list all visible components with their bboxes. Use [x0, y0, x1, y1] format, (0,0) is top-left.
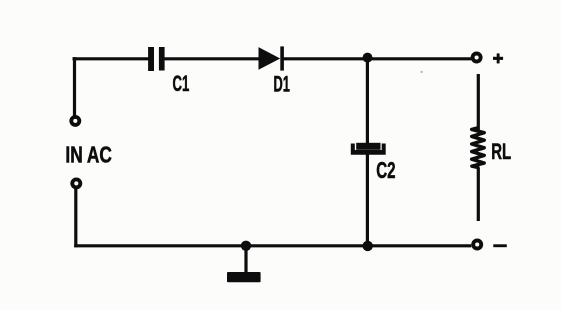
wire: C2 bottom to node B on bottom rail — [366, 154, 369, 246]
svg-text:C2: C2 — [376, 157, 395, 183]
wire: + terminal down to RL top — [477, 74, 480, 130]
terminal: lower IN AC — [72, 179, 80, 187]
node B junction dot (bottom, C2 tap) — [363, 241, 373, 251]
wire: lower IN AC terminal down to bottom rail — [74, 189, 77, 248]
terminal: + output — [473, 54, 481, 62]
minus sign — [493, 244, 507, 247]
node G junction dot (ground tap) — [241, 241, 251, 251]
diode D1 anode triangle — [259, 47, 281, 70]
svg-text:IN AC: IN AC — [65, 142, 112, 168]
wire: RL bottom lead — [477, 168, 480, 222]
resistor RL zigzag — [472, 128, 485, 168]
capacitor C1 left plate — [148, 47, 154, 71]
svg-text:D1: D1 — [274, 71, 290, 96]
wire: left vertical to upper IN AC terminal — [73, 57, 76, 116]
node A junction dot (top, C2 tap) — [363, 53, 373, 63]
diode D1 cathode bar — [280, 46, 284, 70]
wire top: D1 through node A to + terminal — [283, 57, 471, 60]
wire: node A down to C2 top plate — [366, 58, 369, 144]
terminal: upper IN AC — [71, 117, 79, 125]
wire top: input corner to C1 — [73, 57, 150, 60]
scan speck — [420, 71, 422, 73]
capacitor C2 positive plate — [356, 143, 380, 150]
capacitor C1 right plate — [159, 47, 165, 71]
wire: ground stub from node G — [244, 246, 247, 273]
ground symbol bar — [227, 272, 261, 282]
terminal: - output — [473, 241, 481, 249]
plus sign — [493, 57, 503, 60]
svg-text:RL: RL — [491, 139, 511, 164]
wire top: C1 to D1 — [164, 57, 260, 60]
capacitor C2 negative cup plate — [351, 144, 386, 155]
svg-text:C1: C1 — [173, 71, 190, 96]
wire bottom rail: left corner to - terminal — [74, 244, 471, 247]
